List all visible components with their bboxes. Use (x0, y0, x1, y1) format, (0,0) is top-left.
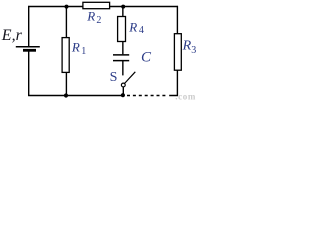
svg-text:1: 1 (81, 46, 86, 57)
svg-text:3: 3 (191, 45, 196, 56)
svg-text:E,r: E,r (1, 27, 23, 44)
svg-text:R: R (182, 39, 192, 54)
switch S contact circle (121, 83, 125, 87)
battery E short thick plate (23, 49, 36, 52)
svg-text:C: C (141, 50, 152, 66)
wire bottom solid (28, 95, 124, 97)
battery E long plate (16, 46, 40, 48)
svg-text:4: 4 (139, 25, 144, 36)
wire switch to bottom (122, 87, 124, 96)
svg-text:.com: .com (175, 92, 196, 100)
svg-text:R: R (128, 20, 137, 35)
wire capacitor lower lead (122, 61, 124, 75)
wire R4/C branch upper (122, 7, 124, 55)
wire top horizontal (28, 6, 178, 8)
wire bottom dashed (127, 95, 168, 97)
svg-text:2: 2 (96, 15, 101, 26)
resistor R1 box (62, 38, 69, 73)
wire bottom right solid (169, 95, 178, 97)
wire R1 branch vertical (65, 7, 67, 96)
node dot top left junction (65, 5, 69, 9)
wire left vertical (battery branch) (28, 6, 30, 47)
wire right vertical (176, 6, 178, 96)
node dot bottom left junction (64, 93, 68, 97)
resistor R3 box (174, 34, 181, 70)
capacitor C bottom plate (113, 60, 129, 62)
switch S lever (125, 72, 136, 84)
wire left vertical below battery (28, 51, 30, 97)
svg-text:R: R (86, 9, 95, 24)
svg-text:R: R (71, 40, 80, 55)
capacitor C top plate (113, 54, 129, 56)
svg-text:S: S (110, 70, 118, 85)
resistor R4 box (118, 17, 126, 42)
resistor R2 box (83, 2, 110, 8)
node dot bottom right junction (121, 93, 125, 97)
node dot top right junction (121, 5, 125, 9)
